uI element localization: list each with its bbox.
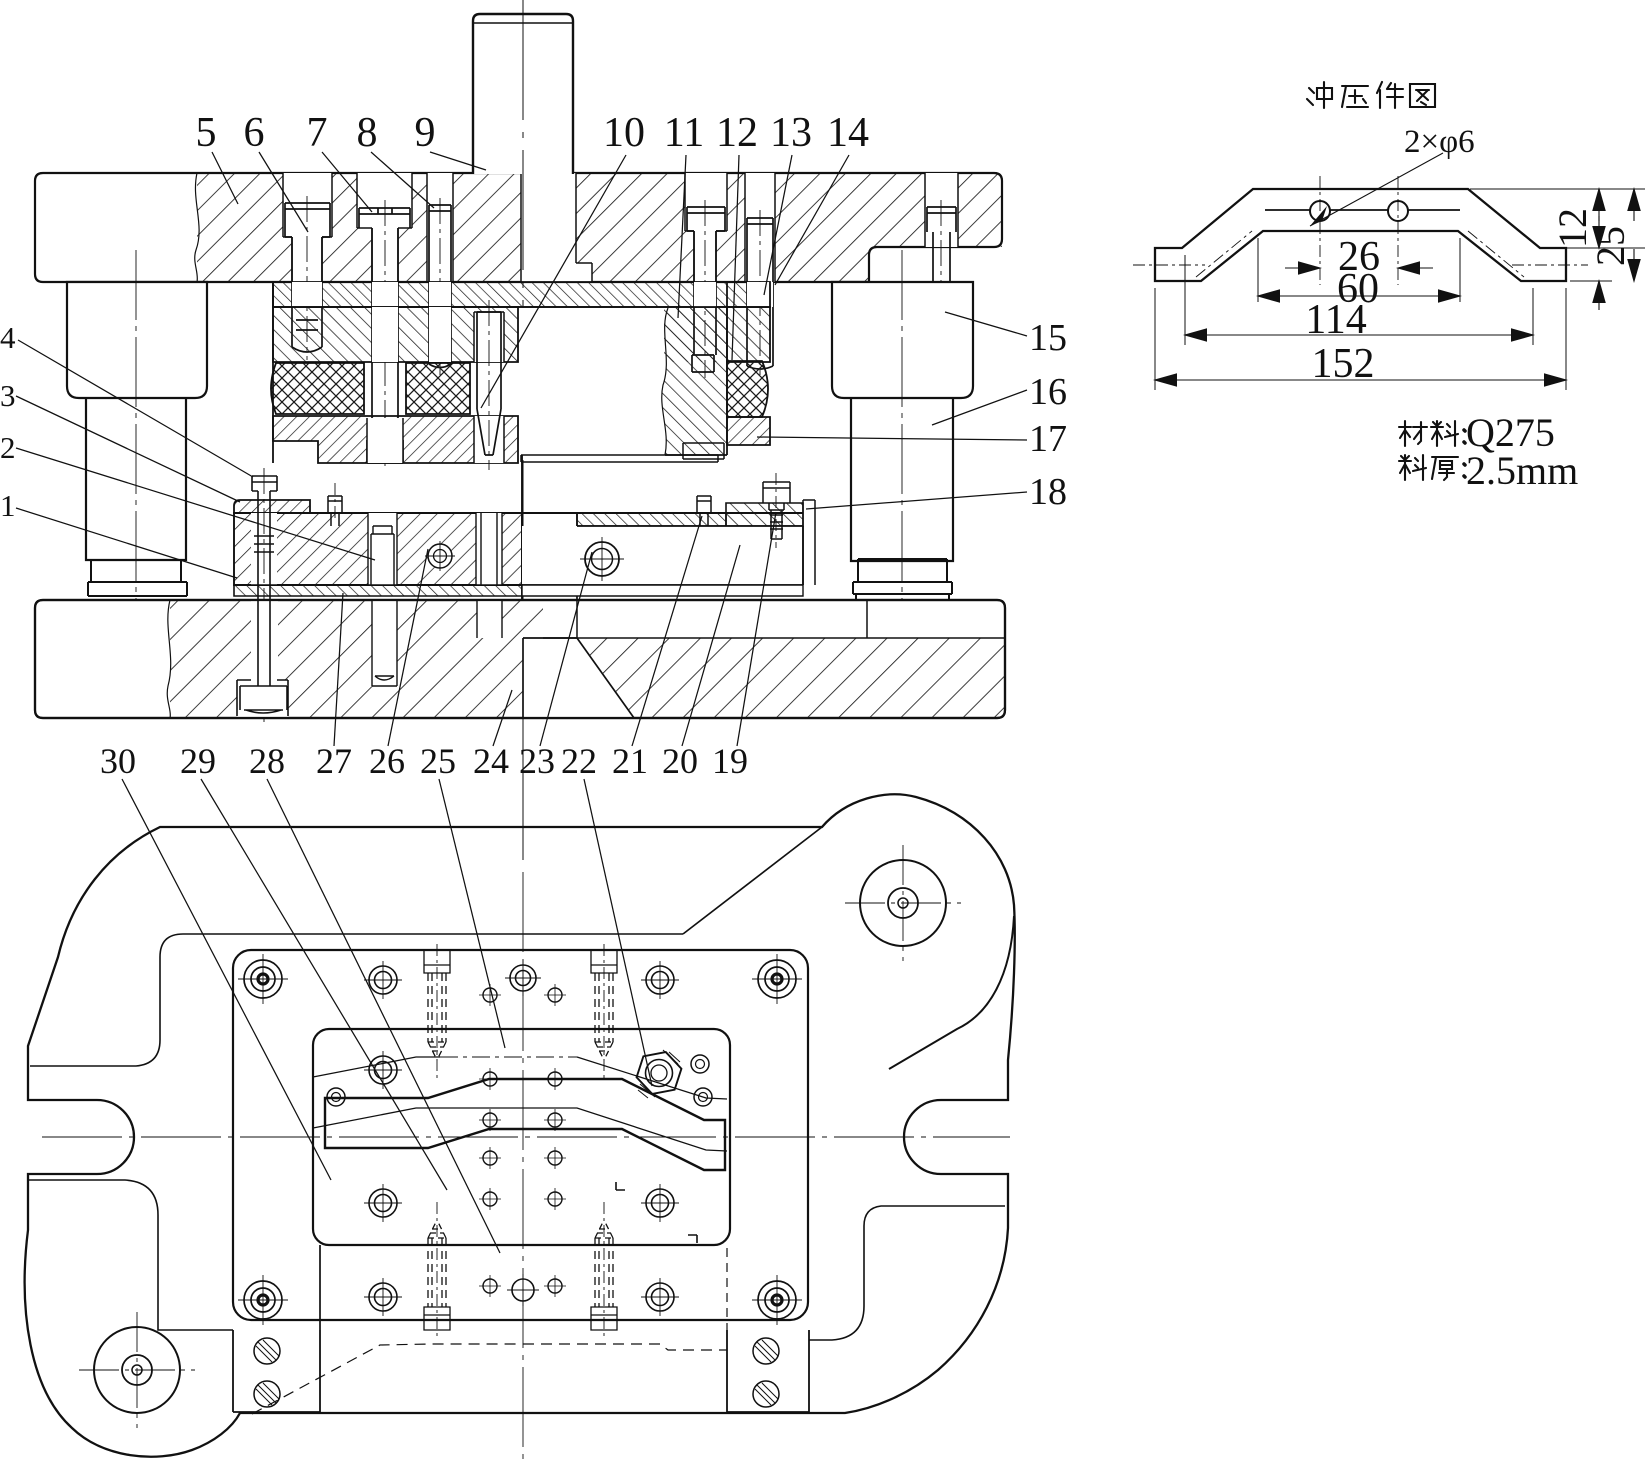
svg-text:11: 11 bbox=[664, 110, 704, 156]
svg-text:27: 27 bbox=[316, 741, 352, 781]
svg-text:25: 25 bbox=[1588, 226, 1633, 266]
svg-text:3: 3 bbox=[0, 378, 16, 413]
svg-text:8: 8 bbox=[357, 110, 378, 156]
svg-text:2×φ6: 2×φ6 bbox=[1404, 124, 1475, 160]
svg-text:29: 29 bbox=[180, 741, 216, 781]
svg-text:17: 17 bbox=[1029, 418, 1067, 460]
svg-text:30: 30 bbox=[100, 741, 136, 781]
svg-text:15: 15 bbox=[1029, 317, 1067, 359]
svg-text:7: 7 bbox=[307, 110, 328, 156]
svg-text:5: 5 bbox=[196, 110, 217, 156]
svg-text:6: 6 bbox=[244, 110, 265, 156]
svg-text:12: 12 bbox=[716, 110, 758, 156]
svg-text:25: 25 bbox=[420, 741, 456, 781]
svg-text:28: 28 bbox=[249, 741, 285, 781]
svg-text:24: 24 bbox=[473, 741, 509, 781]
svg-text:22: 22 bbox=[561, 741, 597, 781]
svg-text:152: 152 bbox=[1312, 341, 1375, 387]
svg-text:16: 16 bbox=[1029, 371, 1067, 413]
svg-text:14: 14 bbox=[827, 110, 869, 156]
svg-text:10: 10 bbox=[603, 110, 645, 156]
svg-text:26: 26 bbox=[369, 741, 405, 781]
svg-text:23: 23 bbox=[519, 741, 555, 781]
svg-text:9: 9 bbox=[415, 110, 436, 156]
svg-text:21: 21 bbox=[612, 741, 648, 781]
svg-text:19: 19 bbox=[712, 741, 748, 781]
svg-text:2: 2 bbox=[0, 430, 16, 465]
svg-text:4: 4 bbox=[0, 320, 16, 355]
svg-text:1: 1 bbox=[0, 488, 16, 523]
svg-text:13: 13 bbox=[770, 110, 812, 156]
svg-text:114: 114 bbox=[1305, 297, 1366, 343]
svg-text:18: 18 bbox=[1029, 471, 1067, 513]
svg-text:2.5mm: 2.5mm bbox=[1466, 448, 1578, 493]
svg-text:20: 20 bbox=[662, 741, 698, 781]
